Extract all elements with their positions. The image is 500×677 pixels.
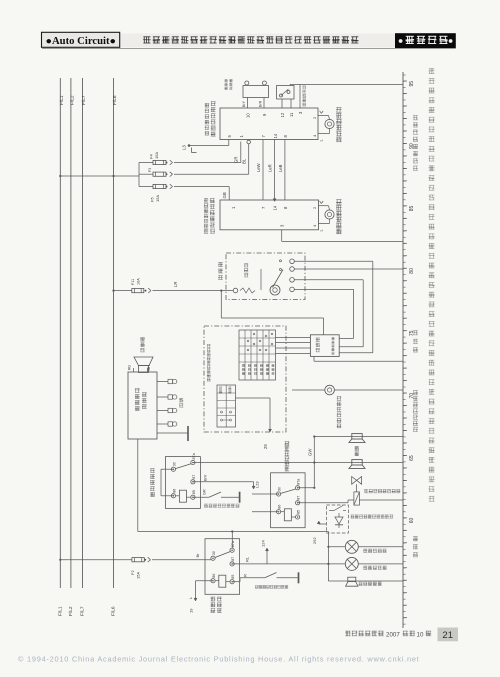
svg-text:F3: F3 [148, 168, 152, 172]
svg-text:Br: Br [195, 553, 200, 558]
svg-text:10: 10 [246, 113, 251, 118]
svg-text:60: 60 [409, 518, 415, 524]
svg-text:GR: GR [234, 157, 239, 163]
svg-text:85: 85 [231, 575, 235, 579]
svg-text:87a: 87a [192, 452, 196, 459]
svg-text:8: 8 [283, 206, 288, 209]
svg-text:F5: F5 [150, 197, 155, 202]
svg-text:2: 2 [312, 116, 317, 119]
svg-text:GW: GW [308, 448, 313, 456]
svg-text:65: 65 [409, 455, 415, 461]
svg-text:F/L6: F/L6 [111, 606, 117, 616]
svg-text:85: 85 [297, 510, 301, 514]
svg-text:BrV: BrV [203, 474, 207, 481]
svg-text:87: 87 [297, 496, 301, 500]
svg-text:BL: BL [242, 158, 247, 164]
svg-text:14: 14 [273, 205, 278, 210]
svg-text:GR: GR [202, 489, 206, 495]
svg-text:2: 2 [312, 206, 317, 209]
svg-text:2007: 2007 [386, 632, 400, 639]
svg-text:7: 7 [261, 206, 266, 209]
svg-text:9: 9 [262, 113, 267, 116]
svg-text:124: 124 [261, 540, 266, 547]
svg-text:87a: 87a [297, 478, 301, 485]
svg-text:95: 95 [409, 81, 415, 87]
svg-text:BrR: BrR [258, 100, 262, 107]
svg-text:10A: 10A [136, 278, 140, 285]
svg-text:F4: F4 [149, 154, 154, 159]
svg-text:1: 1 [239, 135, 244, 138]
svg-text:86: 86 [172, 489, 176, 493]
svg-text:RG: RG [128, 365, 132, 370]
svg-text:80: 80 [409, 268, 415, 274]
svg-text:86: 86 [278, 505, 282, 509]
svg-text:87a: 87a [231, 540, 235, 547]
svg-text:87: 87 [192, 475, 196, 479]
svg-text:85: 85 [192, 490, 196, 494]
svg-text:7: 7 [261, 135, 266, 138]
svg-text:30: 30 [172, 462, 176, 466]
svg-text:R: R [242, 574, 247, 577]
svg-text:F/L6: F/L6 [112, 95, 118, 105]
svg-text:GB: GB [222, 192, 227, 198]
svg-text:LR: LR [173, 282, 178, 288]
svg-text:LeB: LeB [278, 164, 283, 172]
svg-text:F/L7: F/L7 [80, 606, 86, 616]
svg-text:F/L1: F/L1 [59, 95, 65, 105]
svg-text:11: 11 [289, 112, 294, 117]
svg-text:LeW: LeW [256, 163, 261, 172]
svg-text:L3: L3 [182, 145, 187, 150]
svg-text:F/L1: F/L1 [58, 606, 64, 616]
svg-text:29: 29 [263, 444, 268, 449]
svg-text:8: 8 [283, 135, 288, 138]
svg-text:292: 292 [312, 537, 317, 544]
svg-text:F/L2: F/L2 [68, 606, 74, 616]
svg-text:19: 19 [189, 608, 194, 613]
svg-text:L: L [319, 139, 324, 142]
svg-text:86: 86 [212, 574, 216, 578]
svg-text:LeR: LeR [268, 164, 273, 172]
svg-text:WH: WH [147, 365, 151, 371]
svg-text:14: 14 [273, 133, 278, 138]
svg-text:85: 85 [409, 206, 415, 212]
svg-text:4: 4 [312, 134, 317, 137]
svg-text:15A: 15A [154, 152, 159, 159]
svg-text:L: L [319, 229, 324, 232]
svg-text:12: 12 [280, 112, 285, 117]
svg-text:1: 1 [231, 206, 236, 209]
svg-text:F2: F2 [130, 570, 135, 575]
svg-text:3: 3 [280, 224, 285, 227]
svg-text:87: 87 [231, 557, 235, 561]
svg-text:5: 5 [227, 135, 232, 138]
svg-text:F/L7: F/L7 [81, 95, 87, 105]
svg-text:3: 3 [298, 111, 303, 114]
svg-text:F11: F11 [131, 279, 135, 285]
svg-text:30: 30 [212, 551, 216, 555]
svg-text:BrY: BrY [242, 100, 246, 107]
svg-text:15A: 15A [155, 195, 160, 202]
svg-text:4: 4 [312, 224, 317, 227]
svg-text:L23: L23 [255, 481, 260, 488]
svg-text:© 1994-2010 China Academic Jou: © 1994-2010 China Academic Journal Elect… [18, 655, 420, 664]
svg-text:15A: 15A [136, 572, 141, 579]
svg-text:F/L2: F/L2 [70, 95, 76, 105]
svg-text:●Auto Circuit●: ●Auto Circuit● [46, 36, 117, 47]
svg-text:21: 21 [442, 630, 453, 641]
svg-text:30: 30 [278, 487, 282, 491]
svg-text:10: 10 [417, 632, 424, 639]
svg-text:RL: RL [245, 556, 250, 562]
svg-text:L: L [188, 596, 193, 599]
